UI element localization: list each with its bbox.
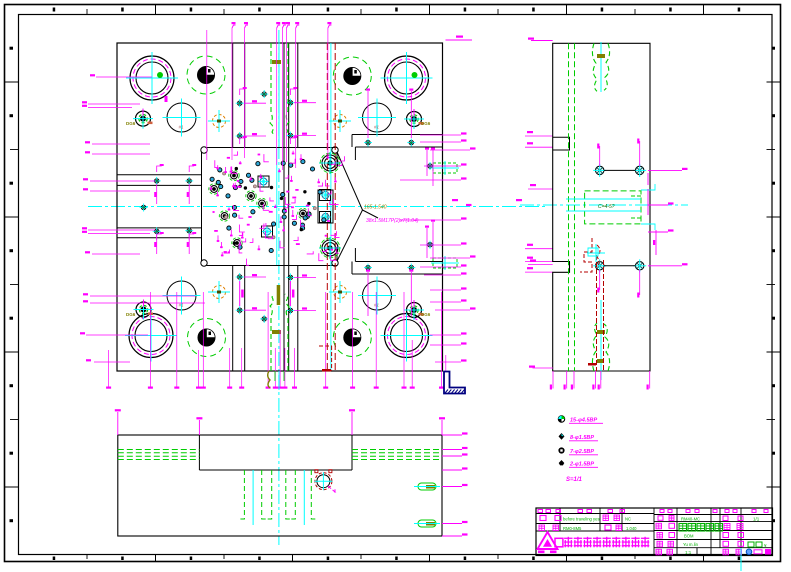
svg-text:#1: #1 <box>179 125 185 130</box>
vertical olive runner label <box>277 285 281 305</box>
screw horizontal leaders <box>154 100 316 311</box>
svg-text:RM0-8M5: RM0-8M5 <box>563 526 582 531</box>
sprue puller bushing top-right <box>404 109 424 129</box>
cyan line through plate <box>330 43 332 371</box>
sprue channel top (hidden) <box>270 40 289 147</box>
right dimension lines <box>400 132 476 362</box>
cyan slot line in cavity <box>276 148 278 265</box>
return pin hole bottom-left <box>163 277 201 315</box>
side view sprue channel bottom <box>592 300 609 380</box>
side view socket screws <box>593 139 646 298</box>
svg-text:1.040: 1.040 <box>626 526 637 531</box>
side view left dimension lines <box>525 131 553 272</box>
guide bushing bottom-right <box>381 310 433 362</box>
window screw leaders <box>366 89 435 317</box>
angle pin mark top-left <box>208 110 230 132</box>
company logo <box>538 532 558 553</box>
side view hidden plate split lines <box>569 43 575 371</box>
plate mounting screws <box>140 90 434 323</box>
svg-text:38x1.5M17P(2)x7(1.04): 38x1.5M17P(2)x7(1.04) <box>366 218 419 224</box>
vertical centerline of plan and bottom views <box>278 30 280 545</box>
right-side window bands <box>352 135 443 275</box>
ejector pin dimension leaders <box>210 151 345 266</box>
svg-text:Yu m.lin: Yu m.lin <box>683 542 699 547</box>
bottom section view outline <box>118 435 442 536</box>
angle pin mark bottom-left <box>208 281 230 303</box>
bottom view hidden runner lines <box>118 450 442 460</box>
angle pin mark bottom-right <box>329 281 351 303</box>
bottom view side lock slots <box>414 483 440 527</box>
svg-text:1:1: 1:1 <box>685 550 692 555</box>
left runner channel lines <box>117 175 201 238</box>
plate bottom edge colored marks <box>268 369 331 390</box>
svg-text:DG6: DG6 <box>421 121 431 126</box>
svg-text:165-1.540: 165-1.540 <box>364 205 387 211</box>
heater line hidden (red dashed) 2 <box>334 43 336 371</box>
cyan stray line bottom right <box>740 548 742 571</box>
sprue puller bushing top-left <box>133 109 153 129</box>
guide bushing top-left green dot <box>158 73 163 78</box>
svg-text:1/1: 1/1 <box>753 516 760 521</box>
guide bushing top-right <box>381 52 433 104</box>
side view sprue bushing detail (red hidden) <box>580 238 605 371</box>
svg-text:#1: #1 <box>374 303 380 308</box>
edge screw leaders <box>157 87 298 306</box>
ejector sleeve pins (green ringed) <box>209 170 308 248</box>
sprue channel bottom (hidden) <box>270 294 289 371</box>
legend row 2 (8-dia1.5) <box>559 433 599 441</box>
svg-text:φ4.5BP: φ4.5BP <box>578 418 597 424</box>
company name (CJK, magenta) <box>555 537 649 548</box>
svg-text:DG6: DG6 <box>126 312 136 317</box>
locating pin A2 top-right <box>333 57 371 95</box>
ejector pins (small blue) <box>210 160 326 253</box>
svg-text:7-φ2.5BP: 7-φ2.5BP <box>570 449 594 455</box>
core insert squares <box>258 176 333 237</box>
latch slot right upper <box>431 161 459 175</box>
side view right vertical dim <box>655 230 657 255</box>
svg-text:2-φ1.5BP: 2-φ1.5BP <box>569 462 594 468</box>
bushing B label <box>165 96 168 102</box>
top dimension lines <box>232 22 473 170</box>
horizontal centerline of side view <box>520 204 688 206</box>
left dimension lines <box>80 74 205 362</box>
legend row 4 (2-dia1.5) <box>559 460 598 468</box>
return pin hole bottom-right <box>358 277 396 315</box>
title block grid <box>536 508 773 556</box>
svg-text:15-: 15- <box>570 418 578 424</box>
locating pin A3 bottom-left <box>188 319 226 357</box>
bottom view ejector pin channels <box>241 470 315 525</box>
side view core pocket (hidden) <box>566 173 655 230</box>
legend row 3 (7-dia2.5) <box>559 448 598 455</box>
svg-text:C=4-5?: C=4-5? <box>598 204 615 210</box>
vertical slot lines in plate <box>233 43 298 371</box>
svg-text:DG6: DG6 <box>421 312 431 317</box>
red mark lower <box>319 346 332 371</box>
svg-text:#1: #1 <box>374 125 380 130</box>
section arrow marker (L-shape) <box>444 372 465 394</box>
cavity pocket outline with corner reliefs and pointed gate <box>201 147 378 266</box>
sprue puller bushing bottom-left <box>134 300 154 320</box>
svg-text:S=1/1: S=1/1 <box>566 477 583 483</box>
horizontal centerline of plan view <box>88 206 545 208</box>
bottom view dimensions <box>115 409 468 536</box>
title block right fields <box>656 510 771 556</box>
core screws (large, right of cavity center) <box>319 152 341 259</box>
svg-text:BOM: BOM <box>684 533 694 538</box>
title block left fields <box>538 510 637 531</box>
bottom view sprue bushing <box>314 470 335 492</box>
svg-text:before traveling yes: before traveling yes <box>563 517 600 522</box>
svg-text:RM40-MC: RM40-MC <box>681 516 700 521</box>
mold plate outline (plan view) <box>117 43 443 371</box>
bottom dimension comb <box>106 292 448 389</box>
heater line hidden (red dashed) 1 <box>326 43 328 371</box>
locating pin A4 bottom-right <box>333 319 371 357</box>
guide bushing top-right green dot <box>412 73 417 78</box>
side view sprue channel top <box>592 42 609 92</box>
locating pin A1 (quadrant symbol) top-left <box>187 56 225 94</box>
latch slot right lower <box>431 256 459 270</box>
dowel points <box>223 167 317 244</box>
side section view outline <box>553 43 650 371</box>
return pin hole top-right <box>358 99 396 137</box>
return pin hole top-left <box>163 99 201 137</box>
svg-text:8-φ1.5BP: 8-φ1.5BP <box>570 435 594 441</box>
angle pin mark top-right <box>329 110 351 132</box>
svg-text:DG6: DG6 <box>126 121 136 126</box>
svg-text:NC: NC <box>625 517 631 522</box>
side view dimensions <box>452 168 688 390</box>
legend row 1 (15-dia4.5 ejector) <box>558 416 603 424</box>
side view top-left dim <box>531 40 553 42</box>
extension line through locating pin A1 <box>206 30 208 160</box>
guide bushing bottom-left <box>125 310 177 362</box>
guide bushing top-left <box>126 52 178 104</box>
sprue puller bushing bottom-right <box>404 300 424 320</box>
insert square pins <box>259 177 331 237</box>
